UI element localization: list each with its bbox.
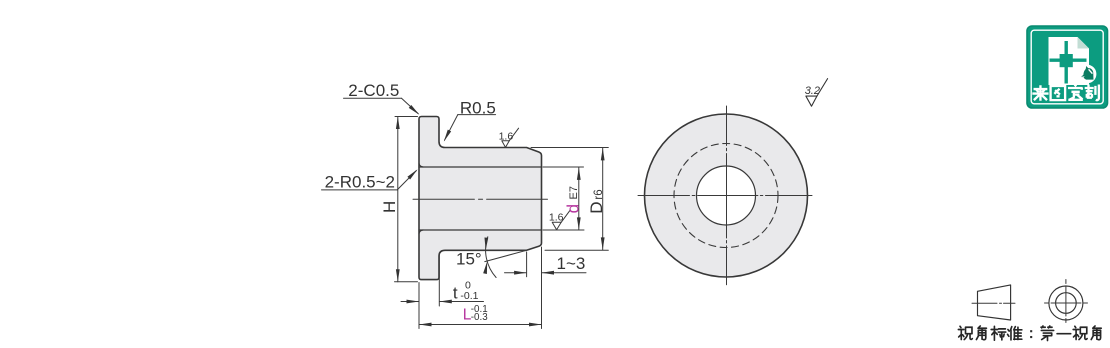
svg-text:-0.3: -0.3 — [471, 312, 488, 323]
svg-text:-0.1: -0.1 — [460, 290, 478, 302]
badge circle with horse — [1078, 65, 1097, 84]
center line of section — [413, 198, 548, 200]
bore circle — [697, 166, 756, 225]
char 视 — [958, 326, 972, 339]
dimension L with tolerance — [419, 247, 542, 329]
bore bottom edge — [419, 229, 542, 231]
label R0.5 — [445, 115, 496, 141]
inner white border — [1031, 30, 1103, 104]
dimension d E7 — [543, 167, 584, 230]
projection circles — [1049, 286, 1083, 320]
roughness 1.6 on bore extension — [552, 210, 570, 230]
bore entry fillet top — [419, 163, 423, 167]
svg-text:2-C0.5: 2-C0.5 — [348, 81, 399, 100]
svg-text:E7: E7 — [568, 186, 580, 199]
flange outer circle — [645, 114, 808, 277]
svg-text:1.6: 1.6 — [549, 211, 564, 223]
roughness 1.6 on top surface — [502, 128, 519, 147]
dimension t with tolerance — [401, 253, 484, 329]
document fold — [1078, 37, 1090, 49]
char 角 (2) — [1091, 326, 1101, 340]
char 来 — [1032, 85, 1048, 101]
dimension H — [395, 117, 418, 282]
svg-text:d: d — [563, 204, 582, 213]
svg-text:2-R0.5~2: 2-R0.5~2 — [325, 173, 395, 192]
vertical center line — [726, 106, 728, 285]
caption: 视角标准：第一视角 (drawn glyphs) — [958, 326, 1101, 341]
svg-text:D: D — [587, 202, 606, 214]
svg-text:R0.5: R0.5 — [460, 98, 496, 117]
label 2-C0.5 — [344, 98, 419, 113]
bushing body silhouette — [419, 117, 542, 280]
char 图 — [1051, 86, 1066, 100]
char 视 (2) — [1073, 326, 1087, 339]
svg-text:r6: r6 — [593, 189, 605, 199]
svg-text:3.2: 3.2 — [805, 85, 820, 97]
char 定 — [1068, 85, 1083, 100]
dimension D r6 — [531, 148, 608, 251]
fullwidth colon — [1030, 330, 1032, 338]
char 制 — [1085, 85, 1099, 101]
icon text 来图定制 (drawn glyphs) — [1032, 85, 1099, 101]
crosshair on document — [1064, 41, 1067, 84]
roughness 3.2 general — [806, 79, 828, 107]
svg-text:t: t — [453, 284, 458, 303]
char 标 — [991, 326, 1006, 340]
label 2-R0.5~2 — [322, 171, 417, 190]
truncated cone side view — [978, 285, 1011, 320]
bore top edge — [419, 166, 542, 168]
svg-text:1.6: 1.6 — [499, 130, 514, 142]
svg-text:15°: 15° — [456, 250, 482, 269]
char 准 — [1008, 327, 1022, 340]
dimension 1~3 — [505, 252, 587, 277]
icon background — [1027, 26, 1108, 108]
document — [1049, 37, 1090, 85]
char 角 — [976, 326, 986, 340]
char 一 — [1057, 329, 1071, 339]
hidden sleeve circle — [674, 144, 778, 248]
svg-text:1~3: 1~3 — [557, 254, 586, 273]
projection crosshair — [1045, 302, 1088, 304]
bore entry fillet bottom — [419, 230, 423, 234]
char 第 — [1041, 326, 1054, 341]
svg-text:H: H — [380, 201, 399, 213]
cone center line — [972, 302, 1015, 304]
horizontal center line — [638, 195, 812, 197]
angle 15 deg — [485, 237, 527, 278]
